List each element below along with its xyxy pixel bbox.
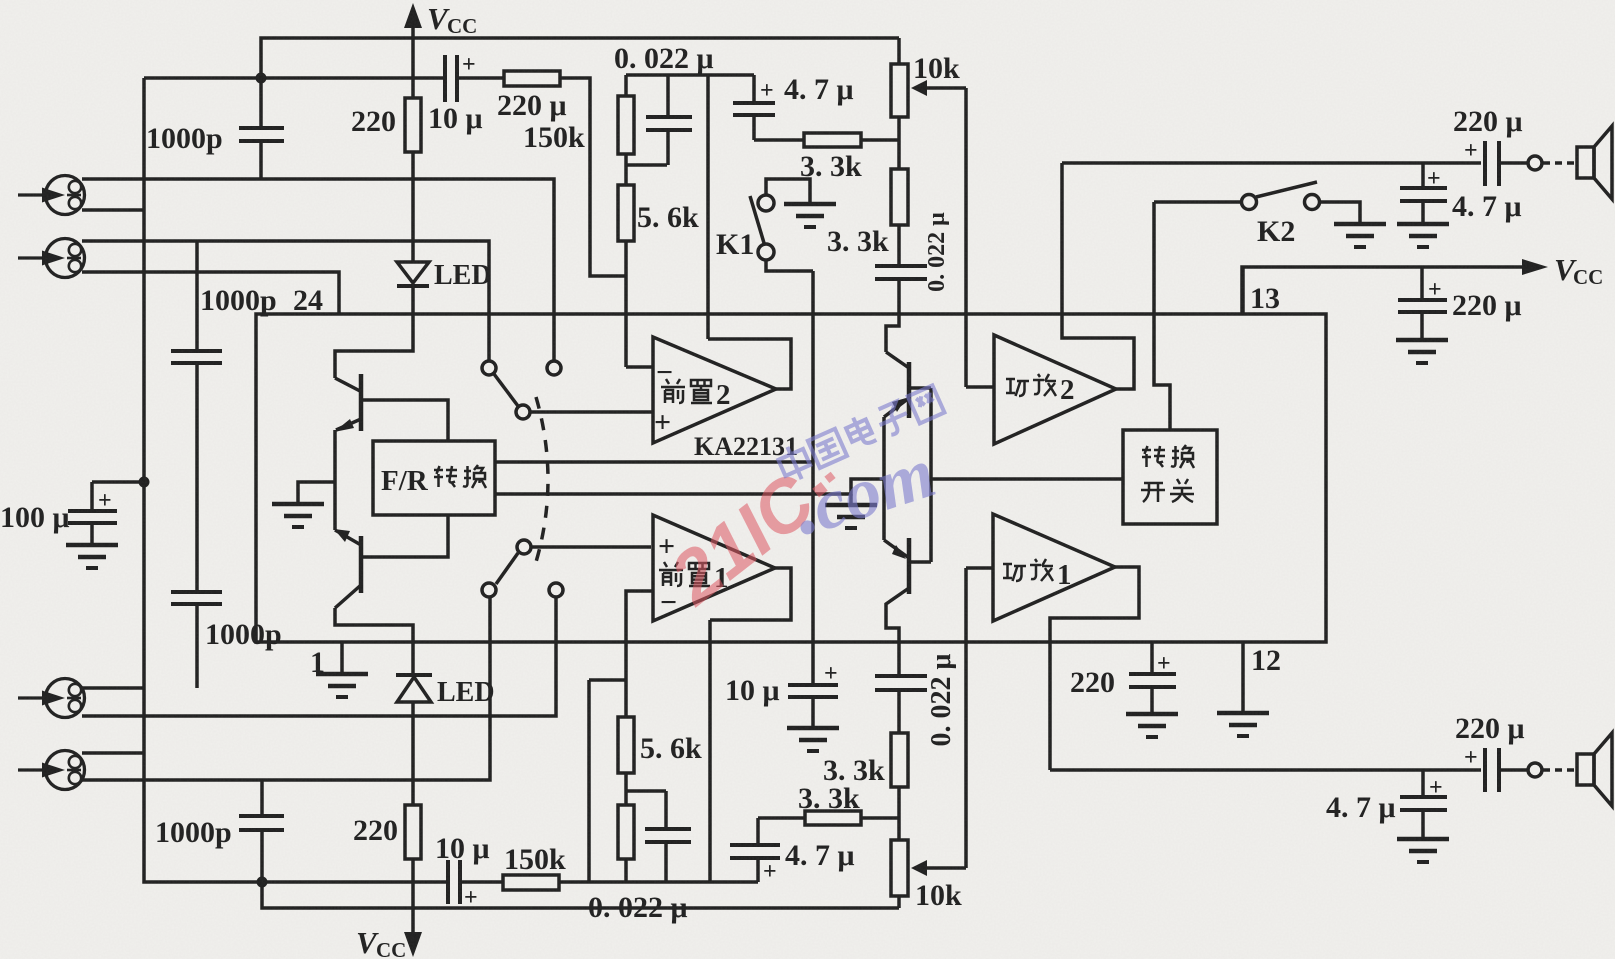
wire terminal to speaker1 bbox=[1543, 161, 1577, 165]
wire R2 to 5.6k chain bbox=[560, 78, 626, 276]
switch K1 bbox=[758, 195, 774, 211]
watermark red 21IC bbox=[654, 438, 856, 621]
speaker SP1 bbox=[1577, 147, 1594, 178]
capacitor 220u C17 bbox=[1150, 642, 1154, 674]
wire Q2 base to F/R box bbox=[361, 515, 448, 557]
wire bottom mid rail bbox=[559, 880, 758, 884]
switch wiper contact S2c bbox=[517, 540, 531, 554]
wire F/R out1 to K1 pin bbox=[495, 460, 813, 464]
transistor Q4 bbox=[884, 540, 909, 558]
switch lever S2 bbox=[496, 553, 518, 584]
wire amp2 feedback vertical bbox=[964, 88, 968, 387]
pin 13 stub bbox=[1241, 267, 1245, 314]
wiper arrow RP2 bbox=[923, 866, 966, 870]
switch contact S2b bbox=[549, 583, 563, 597]
wire C7 to R150k2 bbox=[460, 880, 503, 884]
wire J3 bottom to switch contact bbox=[82, 597, 556, 716]
jack J1 input bbox=[18, 176, 85, 215]
capacitor 220u C12 bbox=[1483, 141, 1487, 186]
wire amp2 input bbox=[966, 385, 994, 389]
switch contact S1a bbox=[482, 361, 496, 375]
block F/R converter box bbox=[373, 441, 495, 515]
potentiometer 10k RP2 bbox=[891, 840, 908, 896]
wire speaker1 rail bbox=[1062, 161, 1481, 165]
wire J2 top to switch contact bbox=[82, 241, 489, 361]
switch contact S1b bbox=[547, 361, 561, 375]
wire J1 top to switch contact bbox=[82, 179, 554, 361]
op-amp preamp1 bbox=[653, 515, 775, 621]
wire amp1 feedback vertical bbox=[964, 568, 968, 868]
wire F/R out2 to emitters bbox=[495, 479, 884, 494]
op-amp power amp2 bbox=[994, 335, 1116, 444]
ground C11 bbox=[787, 728, 839, 751]
watermark blue cn text bbox=[775, 383, 945, 485]
wire Vcc upper rail y78 bbox=[144, 76, 445, 80]
capacitor 100u C3 bbox=[92, 480, 144, 484]
resistor R5 top chain bbox=[624, 75, 628, 96]
capacitor 0.022u C8 bbox=[666, 75, 670, 117]
op-amp IC KA22131 outline box bbox=[256, 314, 1326, 642]
power Vcc arrow bottom bbox=[404, 932, 422, 957]
wire emitter to ground tap bbox=[298, 482, 335, 504]
node junction dot A bbox=[256, 73, 267, 84]
wire R7 to 10k bbox=[861, 138, 899, 142]
wire S2c to preamp1 plus bbox=[531, 545, 651, 549]
wire LED2 up to Q2 collector bbox=[335, 608, 413, 675]
wire C15 to terminal bbox=[1499, 768, 1528, 772]
resistor 3.3k R7 bbox=[804, 133, 861, 147]
wire J3 top to rail bbox=[82, 686, 144, 690]
capacitor 4.7u C16 bbox=[1421, 770, 1425, 797]
resistor 150k R4 bbox=[503, 875, 559, 890]
capacitor 10u C7 bbox=[446, 860, 450, 904]
wire J1 bottom to rail bbox=[82, 208, 144, 212]
capacitor 0.022u C19 bbox=[897, 642, 901, 676]
wire bottom return rail bbox=[262, 882, 899, 908]
node junction dot B bbox=[139, 477, 150, 488]
wire J2 bottom to pin24 bbox=[82, 272, 339, 314]
resistor 3.3k R12 bbox=[805, 811, 861, 825]
node junction dot C bbox=[257, 877, 268, 888]
wire R3 to Vcc arrow bottom bbox=[411, 859, 415, 936]
wire base bus vertical bbox=[929, 388, 933, 562]
ground internal right bbox=[825, 505, 877, 528]
transistor Q3 bbox=[886, 281, 899, 352]
ground C17 bbox=[1126, 714, 1178, 737]
resistor 5.6k R9 bottom chain bbox=[624, 680, 628, 717]
wire ground stub mid bbox=[849, 494, 853, 505]
jack J4 input bbox=[18, 751, 85, 790]
wire bases to switch box bbox=[931, 477, 1123, 481]
wire J4 bottom to switch contact bbox=[82, 597, 490, 780]
resistor R10 bottom chain bbox=[618, 805, 634, 859]
wire R6 to preamp2 minus bbox=[624, 241, 628, 367]
wire left rail vertical bbox=[144, 78, 448, 882]
wire K1 bottom to pin bbox=[766, 260, 813, 271]
capacitor 10u C11 bbox=[788, 683, 838, 687]
wire Vcc right rail bbox=[1242, 267, 1530, 314]
resistor 150k R2 bbox=[504, 71, 560, 86]
capacitor 4.7u C9 bbox=[752, 75, 756, 103]
wire amp1 output down to speaker rail bbox=[1050, 567, 1139, 770]
wire LED2 to R3 bbox=[411, 702, 415, 805]
wire pin vertical preamp1 out bbox=[708, 620, 712, 882]
capacitor 0.022u C10 bbox=[875, 264, 927, 268]
op-amp power amp1 bbox=[993, 514, 1115, 621]
speaker SP2 bbox=[1577, 754, 1594, 785]
wire K2 drop to switch box bbox=[1154, 202, 1170, 430]
switch K2 bbox=[1154, 200, 1241, 204]
terminal circle out1 bbox=[1528, 156, 1542, 170]
wire amp2 output up to speaker rail bbox=[1062, 163, 1134, 389]
jack J3 input bbox=[18, 679, 85, 718]
transistor Q1 bbox=[335, 378, 360, 391]
resistor 5.6k R6 bbox=[618, 185, 634, 241]
wire preamp2 minus input bbox=[626, 365, 653, 369]
wire R9-C18 junction bbox=[626, 789, 666, 793]
switch gang dashed link bbox=[536, 397, 548, 562]
wire R1 to LED1 bbox=[411, 152, 415, 262]
resistor 3.3k R8 bbox=[891, 169, 908, 225]
diode LED1 bbox=[397, 262, 429, 283]
potentiometer 10k RP1 bbox=[897, 38, 901, 64]
power Vcc arrow top bbox=[411, 22, 415, 98]
capacitor 10u C2 bbox=[443, 55, 447, 102]
wiper arrow RP1 bbox=[923, 86, 966, 90]
wire LED1 into IC to Q1 collector bbox=[335, 286, 413, 378]
wire speaker2 rail bbox=[1050, 768, 1481, 772]
ground C16 bbox=[1397, 839, 1449, 862]
wire Q3 base join bbox=[909, 386, 931, 390]
wire J4 top to rail bbox=[82, 751, 144, 755]
switch wiper contact S1c bbox=[516, 405, 530, 419]
wire Q4 base join bbox=[909, 560, 931, 564]
capacitor 1000p C6 bbox=[260, 780, 264, 816]
wire R5-C8 junction bbox=[626, 163, 667, 167]
transistor Q2 bbox=[335, 530, 361, 545]
wire C9 to 3.3k bbox=[754, 138, 804, 142]
wire S1c to preamp2 plus bbox=[530, 410, 653, 414]
capacitor 1000p C4 upper bbox=[195, 241, 199, 351]
ground K2 bbox=[1334, 224, 1386, 247]
ground internal left bbox=[272, 504, 324, 527]
ground K1 bbox=[784, 204, 836, 227]
wire K2 right to ground bbox=[1320, 202, 1360, 224]
ground C14 bbox=[1396, 340, 1448, 363]
power Vcc arrow right bbox=[1522, 259, 1548, 275]
wire 0.022 header bbox=[626, 73, 754, 77]
capacitor 0.022u C18 bbox=[664, 791, 668, 829]
capacitor 220u C14 bbox=[1420, 267, 1424, 300]
capacitor 4.7u C20 bbox=[756, 818, 760, 845]
wire preamp1 minus input bbox=[626, 591, 653, 680]
terminal circle out2 bbox=[1528, 763, 1542, 777]
switch lever S1 bbox=[494, 374, 518, 406]
pin 12 stub and ground bbox=[1241, 642, 1245, 713]
resistor 220 R3 bbox=[405, 805, 421, 859]
wire terminal to speaker2 bbox=[1543, 768, 1577, 772]
pin 1 stub and ground bbox=[340, 642, 344, 674]
wire preamp2 output to pin bbox=[708, 339, 791, 389]
diode LED2 bbox=[396, 673, 432, 677]
block switch box bbox=[1123, 430, 1217, 524]
wire C12 to terminal bbox=[1499, 161, 1528, 165]
wire pin vertical preamp2 out bbox=[706, 75, 710, 339]
wire Q3-Q4 emitter vertical bbox=[882, 417, 886, 540]
capacitor 4.7u C13 bbox=[1421, 163, 1425, 188]
wire R4 to bottom 5.6k chain bbox=[589, 678, 626, 682]
wire preamp1 output to pin bbox=[710, 568, 791, 620]
capacitor 1000p C1 bbox=[259, 78, 263, 128]
wire amp1 input bbox=[966, 566, 993, 570]
op-amp preamp2 bbox=[653, 337, 776, 443]
ground C13 bbox=[1397, 224, 1449, 247]
wire top horizontal rail bbox=[261, 38, 899, 78]
jack J2 input bbox=[18, 239, 85, 278]
switch contact S2a bbox=[482, 583, 496, 597]
wire Q1 base to F/R box bbox=[361, 400, 448, 441]
wire K1 top to ground bbox=[766, 179, 810, 203]
wire Q1-Q2 emitter vertical bbox=[333, 430, 337, 530]
watermark blue com bbox=[784, 432, 945, 552]
capacitor 1000p C5 lower bbox=[195, 363, 199, 592]
wire C2 to R150k bbox=[457, 76, 504, 80]
wire K1 pin vertical bbox=[811, 271, 815, 685]
resistor 3.3k R11 bbox=[891, 733, 908, 787]
capacitor 220u C15 bbox=[1483, 748, 1487, 792]
resistor 220 R1 bbox=[405, 98, 421, 152]
ground for C3 bbox=[66, 545, 118, 568]
